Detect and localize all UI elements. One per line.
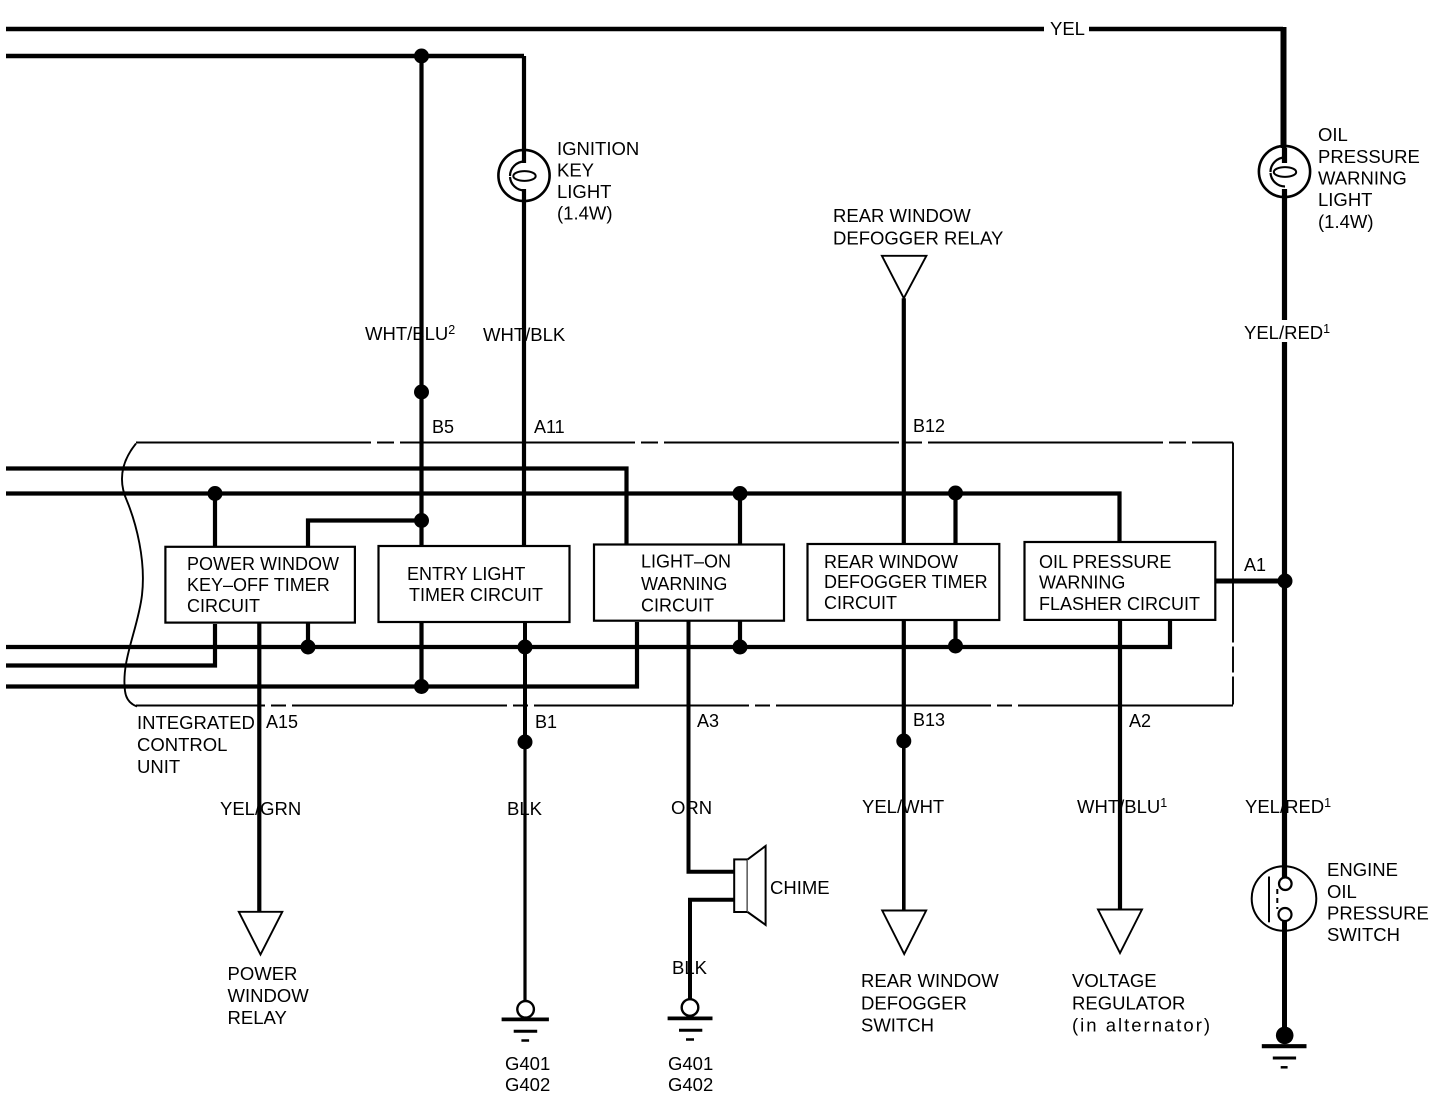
- svg-text:G401: G401: [505, 1053, 550, 1074]
- svg-text:ORN: ORN: [671, 797, 712, 818]
- svg-text:VOLTAGE: VOLTAGE: [1072, 970, 1157, 991]
- svg-text:B1: B1: [535, 712, 557, 732]
- wire pin defogger timer bottom: [953, 621, 957, 646]
- label wire color WHT/BLK: [483, 324, 566, 345]
- wire WHT/BLU B5 vertical: [419, 56, 423, 547]
- svg-text:A3: A3: [697, 711, 719, 731]
- svg-text:WARNING: WARNING: [1039, 573, 1125, 593]
- svg-text:LIGHT: LIGHT: [557, 181, 611, 202]
- svg-text:PRESSURE: PRESSURE: [1327, 903, 1429, 924]
- svg-text:B5: B5: [432, 417, 454, 437]
- wire bus line D to oil flasher bottom: [6, 621, 1170, 647]
- svg-text:FLASHER CIRCUIT: FLASHER CIRCUIT: [1039, 594, 1200, 614]
- connector triangle rear window defogger relay: [882, 256, 927, 298]
- svg-text:A2: A2: [1129, 711, 1151, 731]
- wire pin power window bottom right: [306, 622, 310, 648]
- svg-text:YEL/RED1: YEL/RED1: [1245, 796, 1331, 817]
- lamp oil pressure warning light: [1259, 146, 1310, 197]
- wire B12 from relay down: [902, 298, 906, 546]
- label ground G401 G402 at B1: [505, 1053, 550, 1095]
- torn wavy left edge of ICU: [122, 444, 143, 707]
- svg-text:BLK: BLK: [507, 798, 543, 819]
- wire A3 from light-on box down to chime: [689, 621, 735, 872]
- svg-text:B12: B12: [913, 416, 945, 436]
- wire second feed horizontal: [6, 54, 524, 59]
- svg-text:WINDOW: WINDOW: [228, 985, 310, 1006]
- svg-text:CIRCUIT: CIRCUIT: [187, 596, 260, 616]
- wire pin defogger timer top: [953, 493, 957, 546]
- svg-text:REAR WINDOW: REAR WINDOW: [861, 970, 999, 991]
- node on line B at light-on pin: [733, 486, 748, 501]
- wire thick vertical to oil pressure warning light: [1281, 27, 1287, 148]
- wire A2 from oil flasher box down: [1118, 620, 1122, 910]
- wire bus line F to light-on bottom left: [6, 622, 637, 687]
- wire segment C to B5: [308, 521, 422, 549]
- svg-text:WARNING: WARNING: [641, 574, 727, 594]
- ground symbol at engine oil pressure switch: [1262, 1046, 1307, 1067]
- wire pin light-on bottom right: [738, 622, 742, 648]
- node A1 on YEL/RED wire: [1278, 574, 1293, 589]
- svg-text:A1: A1: [1244, 555, 1266, 575]
- wire A15 from power window box down: [257, 623, 261, 912]
- wire pin light-on top: [738, 494, 742, 547]
- svg-text:YEL/RED1: YEL/RED1: [1244, 322, 1330, 343]
- svg-text:G402: G402: [668, 1074, 713, 1095]
- label power window relay: [228, 963, 310, 1028]
- node on line B at power window pin: [208, 486, 223, 501]
- svg-text:LIGHT: LIGHT: [1318, 189, 1372, 210]
- node junction on second feed: [414, 49, 429, 64]
- svg-text:OIL PRESSURE: OIL PRESSURE: [1039, 552, 1171, 572]
- box rear window defogger timer circuit: [808, 544, 1000, 620]
- svg-text:WHT/BLU2: WHT/BLU2: [365, 323, 455, 344]
- svg-text:PRESSURE: PRESSURE: [1318, 146, 1420, 167]
- svg-text:RELAY: RELAY: [228, 1007, 287, 1028]
- ground symbol at B1: [502, 1001, 549, 1041]
- svg-text:CONTROL: CONTROL: [137, 734, 227, 755]
- connector triangle power window relay: [239, 912, 282, 955]
- pin label B5: [266, 416, 1266, 732]
- svg-text:YEL: YEL: [1050, 18, 1085, 39]
- svg-text:CIRCUIT: CIRCUIT: [824, 593, 897, 613]
- svg-text:OIL: OIL: [1318, 124, 1348, 145]
- svg-text:SWITCH: SWITCH: [861, 1015, 934, 1036]
- connector triangle voltage regulator: [1098, 910, 1142, 954]
- svg-text:YEL/WHT: YEL/WHT: [862, 796, 944, 817]
- integrated control unit dashed box: [122, 443, 1233, 707]
- wire B12 through defogger timer box continues: [902, 620, 906, 741]
- svg-text:ENTRY LIGHT: ENTRY LIGHT: [407, 564, 525, 584]
- label rear window defogger switch: [861, 970, 999, 1036]
- label integrated control unit: [137, 712, 255, 777]
- svg-text:POWER WINDOW: POWER WINDOW: [187, 554, 339, 574]
- wire bus line B to oil pressure flasher box: [6, 494, 1120, 545]
- svg-text:ENGINE: ENGINE: [1327, 859, 1398, 880]
- node line D defogger timer pin: [948, 639, 963, 654]
- wire pin entry light bottom left: [419, 623, 423, 687]
- label YEL on top feed: [1044, 18, 1089, 40]
- svg-text:CHIME: CHIME: [770, 877, 830, 898]
- label voltage regulator: [1072, 970, 1212, 1036]
- wire from chime to ground: [690, 900, 734, 999]
- svg-text:POWER: POWER: [228, 963, 298, 984]
- wire B1 from entry light box down: [523, 622, 527, 742]
- wire bus line E to power window bottom left: [6, 624, 215, 666]
- svg-text:SWITCH: SWITCH: [1327, 924, 1400, 945]
- svg-text:CIRCUIT: CIRCUIT: [641, 596, 714, 616]
- label wire color WHT/BLU2: [365, 323, 455, 344]
- lamp ignition key light: [498, 150, 549, 201]
- svg-text:DEFOGGER: DEFOGGER: [861, 993, 967, 1014]
- node B1 below ICU: [518, 735, 533, 750]
- svg-text:UNIT: UNIT: [137, 756, 180, 777]
- node on line B at defogger timer pin: [948, 486, 963, 501]
- node line F entry light pin: [414, 679, 429, 694]
- svg-text:G401: G401: [668, 1053, 713, 1074]
- svg-text:(1.4W): (1.4W): [557, 203, 613, 224]
- svg-text:REAR WINDOW: REAR WINDOW: [824, 552, 958, 572]
- svg-text:INTEGRATED: INTEGRATED: [137, 712, 255, 733]
- wire top feed YEL horizontal: [6, 27, 1283, 32]
- ground node dot: [1276, 1027, 1294, 1045]
- label engine oil pressure switch: [1327, 859, 1429, 945]
- node B13 below ICU: [896, 734, 911, 749]
- label wire color YEL/GRN: [220, 796, 1331, 819]
- svg-text:DEFOGGER RELAY: DEFOGGER RELAY: [833, 228, 1003, 249]
- wire pin power window top left: [213, 494, 217, 549]
- svg-text:BLK: BLK: [672, 957, 708, 978]
- label oil pressure warning light: [1318, 124, 1420, 232]
- svg-text:WHT/BLK: WHT/BLK: [483, 324, 566, 345]
- node segment C meets B5: [414, 513, 429, 528]
- label rear window defogger relay: [833, 205, 1003, 249]
- wire WHT/BLK down to ignition key light: [522, 56, 526, 547]
- svg-text:LIGHT–ON: LIGHT–ON: [641, 552, 731, 572]
- node line D light-on pin: [733, 640, 748, 655]
- node splice on WHT/BLU wire: [414, 385, 429, 400]
- node line D power window pin: [301, 640, 316, 655]
- chime speaker symbol: [734, 846, 765, 925]
- label ignition key light: [557, 138, 639, 224]
- box light-on warning circuit: [594, 545, 784, 621]
- label ground G401 G402 at chime: [668, 1053, 713, 1095]
- svg-text:REGULATOR: REGULATOR: [1072, 993, 1185, 1014]
- ground symbol at chime: [668, 999, 713, 1039]
- box power window key-off timer circuit: [165, 547, 355, 623]
- svg-text:(in alternator): (in alternator): [1072, 1015, 1212, 1036]
- svg-text:WARNING: WARNING: [1318, 168, 1407, 189]
- svg-text:IGNITION: IGNITION: [557, 138, 639, 159]
- svg-text:G402: G402: [505, 1074, 550, 1095]
- svg-text:DEFOGGER TIMER: DEFOGGER TIMER: [824, 572, 988, 592]
- wire from switch to ground: [1282, 921, 1287, 1031]
- label wire color YEL/RED upper: [1262, 320, 1308, 342]
- node line D entry light pin: [518, 640, 533, 655]
- svg-text:KEY–OFF TIMER: KEY–OFF TIMER: [187, 575, 330, 595]
- svg-text:(1.4W): (1.4W): [1318, 211, 1374, 232]
- connector triangle rear window defogger switch: [882, 911, 926, 955]
- svg-text:WHT/BLU1: WHT/BLU1: [1077, 796, 1167, 817]
- svg-text:B13: B13: [913, 710, 945, 730]
- svg-text:KEY: KEY: [557, 160, 594, 181]
- box oil pressure warning flasher circuit: [1025, 542, 1216, 620]
- svg-text:REAR WINDOW: REAR WINDOW: [833, 205, 971, 226]
- svg-text:OIL: OIL: [1327, 881, 1357, 902]
- engine oil pressure switch symbol: [1252, 866, 1317, 931]
- svg-text:A11: A11: [534, 417, 565, 437]
- svg-text:A15: A15: [266, 712, 298, 732]
- wire bus line A to light-on box: [6, 469, 627, 547]
- svg-text:YEL/GRN: YEL/GRN: [220, 798, 301, 819]
- wire A1 from oil flasher box to YEL/RED vertical: [1215, 579, 1285, 584]
- svg-text:TIMER CIRCUIT: TIMER CIRCUIT: [409, 585, 543, 605]
- box entry light timer circuit: [379, 546, 570, 622]
